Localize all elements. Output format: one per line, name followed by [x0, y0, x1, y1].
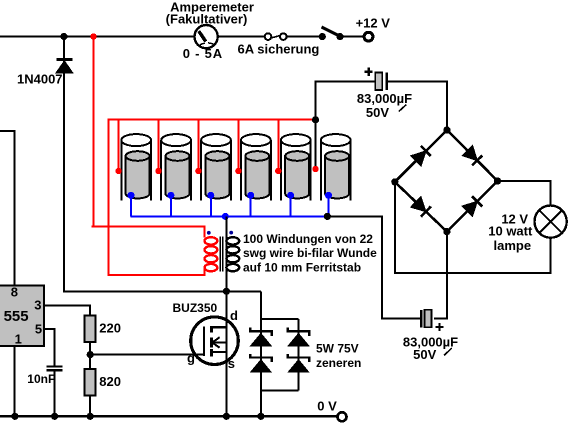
label 50V top: [366, 105, 389, 120]
svg-text:50V: 50V: [366, 105, 389, 120]
zener Z2: [250, 354, 271, 372]
wire blue bus: [131, 215, 328, 217]
bridge rectifier edges: [395, 130, 498, 232]
node junction drain: [223, 288, 230, 295]
svg-text:100 Windungen von 22: 100 Windungen von 22: [243, 232, 373, 246]
svg-text:555: 555: [4, 308, 29, 325]
wire bridge bottom to cap: [434, 232, 447, 319]
wire lamp loop: [395, 181, 551, 273]
node bridge corners: [391, 126, 501, 235]
svg-text:lampe: lampe: [494, 238, 532, 253]
wire gate: [90, 354, 204, 356]
wire zener bottom rail: [261, 390, 299, 392]
zener Z3: [288, 328, 309, 346]
diode bridge BR: [462, 196, 482, 216]
lamp LP1: [535, 206, 567, 238]
wire pin3 to R1: [44, 305, 90, 315]
capacitor cell C5: [281, 134, 311, 200]
capacitor cell C1: [121, 134, 151, 200]
svg-text:0 - 5A: 0 - 5A: [183, 46, 223, 61]
label 0 - 5A: [183, 46, 223, 61]
wire zener top rail: [261, 318, 299, 320]
capacitor cell C3: [201, 134, 231, 200]
svg-text:3: 3: [34, 298, 41, 313]
wire ground bus 0V: [0, 415, 337, 417]
wire red from +12V tap down: [93, 37, 95, 227]
pin 3: [34, 298, 41, 313]
terminal +12V: [364, 32, 373, 41]
wire red bus to capacitor bank: [109, 120, 316, 277]
label plus top cap: [365, 68, 373, 76]
svg-text:1: 1: [15, 331, 22, 346]
node black junction on red bus: [312, 116, 319, 123]
transistor Q1 BUZ350: [191, 317, 239, 365]
wire top cap loop: [316, 81, 447, 130]
label 5W 75V: [316, 342, 359, 356]
svg-text:swg wire bi-filar Wunde: swg wire bi-filar Wunde: [243, 246, 377, 260]
wire pin1 to ground bus: [14, 346, 16, 416]
wire red drops to cells: [119, 120, 279, 172]
label 1N4007: [17, 71, 63, 86]
terminal 0V: [338, 412, 347, 421]
label 220: [99, 321, 121, 336]
resistor R1 220: [85, 316, 96, 370]
node polarity dot secondary: [229, 231, 233, 235]
svg-text:5W 75V: 5W 75V: [316, 342, 359, 356]
svg-text:s: s: [228, 356, 235, 371]
svg-text:g: g: [187, 351, 195, 366]
capacitor cell C4: [241, 134, 271, 200]
diode D1 1N4007 branch wire: [64, 37, 261, 292]
svg-text:+12 V: +12 V: [356, 15, 391, 30]
label lampe: [494, 238, 532, 253]
wire red primary top lead: [91, 227, 204, 238]
svg-text:zeneren: zeneren: [316, 356, 361, 370]
zener Z1: [250, 328, 271, 346]
label plus bottom cap: [435, 323, 443, 331]
transformer T1 secondary winding black: [226, 237, 239, 271]
svg-text:6A sicherung: 6A sicherung: [238, 41, 320, 56]
node junction 1N4007 tap: [60, 33, 67, 40]
label winding note: [243, 232, 377, 275]
wire pin8 to left edge: [0, 131, 15, 285]
label g: [187, 351, 195, 366]
label Amperemeter: [166, 0, 254, 26]
resistor R2 820: [85, 369, 96, 416]
fuse F1 6A: [265, 33, 287, 40]
node polarity dot primary: [207, 231, 211, 235]
node red dots on cells: [115, 166, 318, 174]
zener Z4: [288, 354, 309, 372]
label 6A sicherung: [238, 41, 320, 56]
transformer T1 primary winding red: [205, 237, 218, 271]
pin 1: [15, 331, 22, 346]
svg-text:10nF: 10nF: [27, 372, 55, 386]
diode bridge TL: [411, 146, 431, 166]
wire black cap-loop drop to bus: [315, 120, 317, 170]
wire zener branch right: [298, 319, 300, 391]
pin 5: [35, 322, 42, 337]
label d: [230, 308, 238, 323]
node junction red tap: [90, 33, 96, 39]
IC U1 555: [0, 285, 44, 346]
wire secondary vertical black: [225, 216, 227, 416]
capacitor C8 83000uF top: [375, 73, 388, 91]
label 0 V: [317, 399, 337, 414]
label 50V bottom: [413, 347, 436, 362]
switch S1: [319, 27, 344, 40]
svg-text:auf 10 mm Ferritstab: auf 10 mm Ferritstab: [243, 261, 361, 275]
diode bridge BL: [411, 197, 431, 217]
label 83000uF top: [357, 91, 412, 111]
wire blue drops from cells: [131, 195, 329, 216]
svg-text:50V: 50V: [413, 347, 436, 362]
svg-text:8: 8: [11, 285, 18, 300]
label s: [228, 356, 235, 371]
capacitor cell C6: [321, 134, 351, 200]
node ground junctions: [11, 413, 264, 420]
svg-text:0 V: 0 V: [317, 399, 337, 414]
label 10nF: [27, 372, 55, 386]
svg-text:5: 5: [35, 322, 42, 337]
ammeter M1: [195, 25, 218, 48]
node junction gate divider: [87, 351, 94, 358]
transformer T1 ferrite rod: [220, 236, 223, 271]
svg-text:d: d: [230, 308, 238, 323]
svg-text:10 watt: 10 watt: [488, 223, 533, 238]
svg-text:(Fakultativer): (Fakultativer): [166, 11, 248, 26]
capacitor C9 83000uF bottom: [420, 310, 432, 328]
diode bridge TR: [462, 146, 482, 166]
svg-text:1N4007: 1N4007: [17, 71, 63, 86]
svg-text:BUZ350: BUZ350: [173, 301, 218, 315]
node blue junction bus to secondary: [222, 213, 229, 220]
label 10 watt: [488, 223, 533, 238]
label 83000uF bottom: [403, 334, 458, 355]
node blue dots on cells: [128, 192, 333, 199]
svg-text:220: 220: [99, 321, 121, 336]
svg-text:820: 820: [99, 374, 121, 389]
pin 8: [11, 285, 18, 300]
label 820: [99, 374, 121, 389]
label zeneren: [316, 356, 361, 370]
label 12 V: [501, 211, 528, 226]
wire red primary bottom lead: [109, 269, 205, 275]
wire bus to bottom cap: [327, 216, 419, 318]
label 555: [4, 308, 29, 325]
label +12 V: [356, 15, 391, 30]
label BUZ350: [173, 301, 218, 315]
node black junction bus right end: [324, 213, 331, 220]
wire pin5 to C7: [44, 329, 54, 365]
wire zener branch left: [260, 291, 262, 416]
capacitor cell C2: [161, 134, 191, 200]
diode D1 1N4007 symbol: [56, 58, 72, 72]
wire +12V top rail: [0, 36, 364, 38]
capacitor C7 10nF: [47, 365, 63, 416]
